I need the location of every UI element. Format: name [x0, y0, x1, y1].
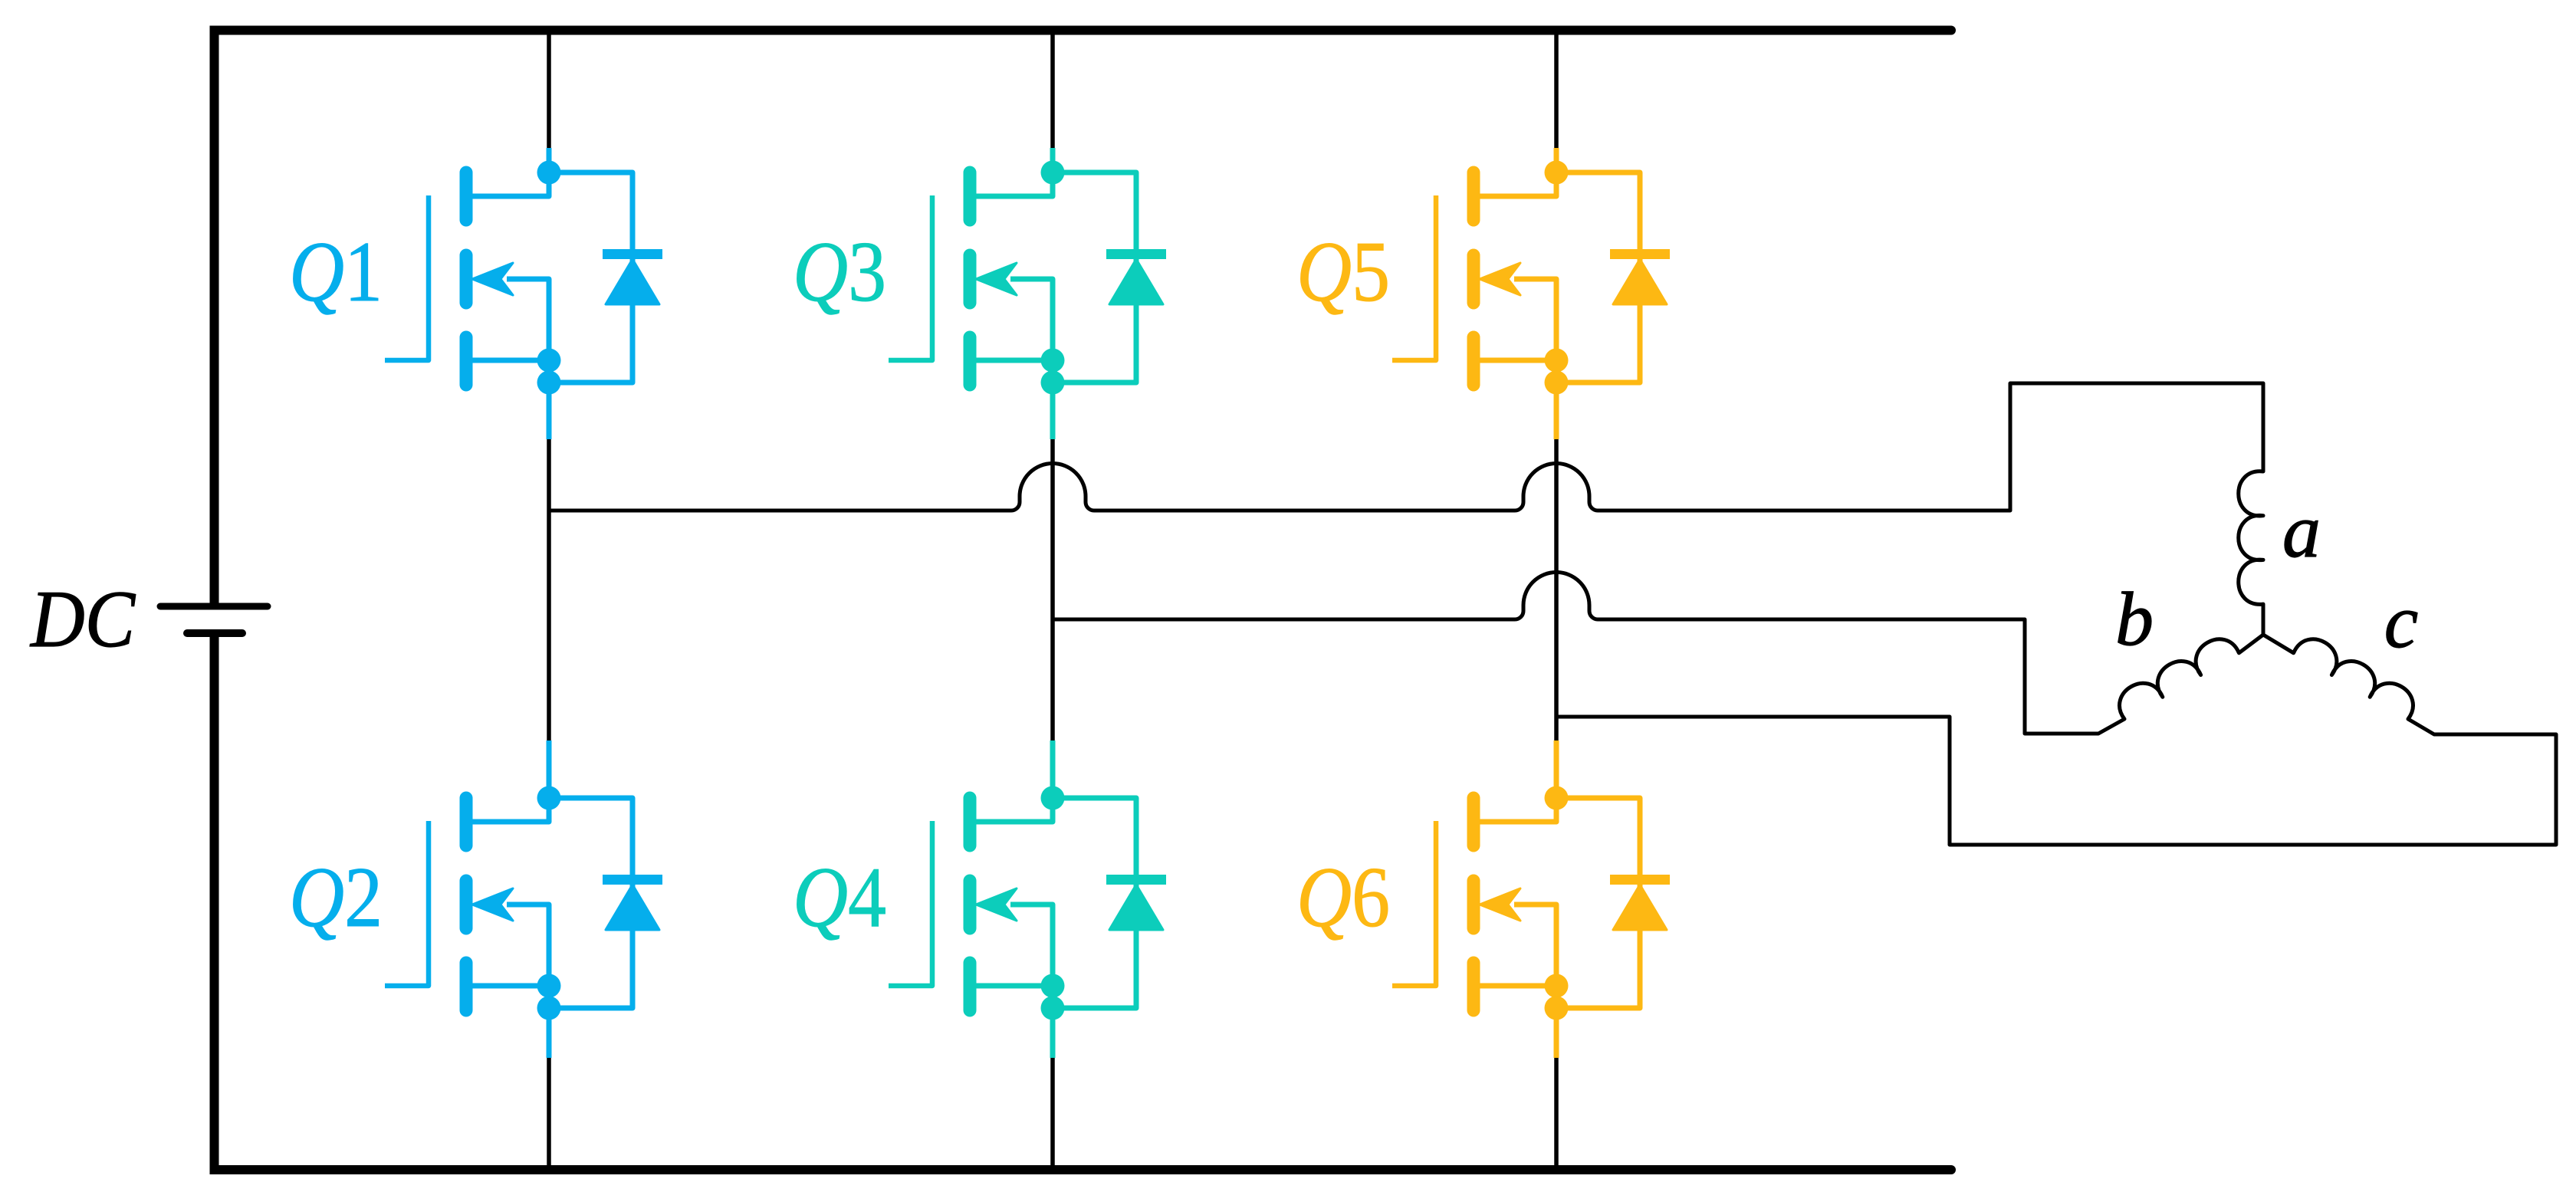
svg-text:DC: DC	[29, 574, 136, 664]
svg-text:Q1: Q1	[289, 225, 383, 320]
svg-text:Q2: Q2	[289, 850, 383, 945]
svg-text:Q6: Q6	[1296, 850, 1390, 945]
svg-text:Q4: Q4	[793, 850, 886, 945]
svg-text:b: b	[2115, 576, 2154, 662]
svg-text:a: a	[2282, 488, 2321, 573]
svg-text:Q3: Q3	[793, 225, 886, 320]
svg-text:c: c	[2384, 579, 2418, 664]
svg-text:Q5: Q5	[1296, 225, 1390, 320]
